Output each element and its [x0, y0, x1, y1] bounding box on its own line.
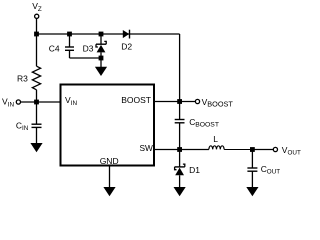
svg-text:IN: IN	[22, 125, 29, 132]
ground (GND pin)	[103, 187, 115, 196]
junction SW/CBOOST/D1	[177, 147, 182, 152]
svg-text:D3: D3	[83, 44, 94, 54]
svg-text:OUT: OUT	[267, 168, 280, 175]
wire VIN rail	[20, 101, 60, 103]
svg-text:Z: Z	[38, 6, 42, 13]
label CBOOST	[189, 117, 219, 129]
capacitor CIN	[32, 102, 42, 144]
wire SW pin to inductor	[155, 149, 209, 151]
wire R3 bottom lead	[36, 90, 38, 102]
node VIN label	[2, 97, 15, 109]
junction output	[250, 147, 255, 152]
junction C4 top	[67, 32, 72, 37]
diode D2	[123, 30, 130, 39]
diode D3 (schottky, cathode up)	[96, 34, 106, 68]
wire top rail	[37, 33, 180, 35]
wire BOOST pin stub	[155, 101, 180, 103]
wire C4 bottom to D3 anode	[70, 57, 102, 59]
ground (CIN)	[30, 143, 42, 152]
ground (COUT)	[246, 187, 258, 196]
svg-text:OUT: OUT	[288, 150, 301, 157]
capacitor COUT	[247, 150, 257, 188]
inductor L	[209, 146, 224, 150]
op-amp U1 regulator box	[61, 85, 155, 166]
node VOUT terminal	[273, 147, 277, 151]
ground (D1)	[174, 187, 186, 196]
ground (D3)	[95, 67, 107, 76]
svg-text:C4: C4	[49, 43, 60, 53]
diode D1 (schottky, cathode up)	[175, 150, 185, 188]
node VZ terminal	[35, 14, 39, 18]
svg-text:GND: GND	[100, 156, 119, 166]
svg-text:BOOST: BOOST	[207, 100, 233, 109]
junction D3 anode / C4	[99, 56, 104, 61]
node VZ label	[32, 1, 42, 13]
junction BOOST	[177, 99, 182, 104]
node VIN terminal	[16, 100, 20, 104]
node VBOOST terminal	[195, 99, 199, 103]
svg-text:IN: IN	[8, 101, 15, 108]
wire to VOUT terminal	[252, 149, 273, 151]
resistor R3	[32, 66, 40, 90]
wire inductor to output node	[224, 149, 252, 151]
svg-text:SW: SW	[140, 143, 154, 153]
junction VZ/rail	[34, 32, 39, 37]
wire VZ stem	[36, 18, 38, 34]
wire rail drop to BOOST node	[179, 34, 181, 102]
junction D3 top	[99, 32, 104, 37]
capacitor CBOOST	[175, 102, 185, 150]
svg-text:BOOST: BOOST	[121, 95, 151, 105]
wire R3 top lead	[36, 34, 38, 66]
svg-text:R3: R3	[17, 74, 28, 84]
svg-text:D1: D1	[189, 165, 200, 175]
wire GND pin	[109, 166, 111, 188]
pin VIN label	[65, 95, 78, 107]
label CIN	[16, 120, 29, 132]
svg-text:IN: IN	[71, 100, 78, 107]
svg-text:D2: D2	[121, 41, 132, 51]
svg-text:L: L	[213, 134, 218, 144]
node VOUT label	[282, 145, 301, 157]
label COUT	[261, 164, 280, 176]
svg-text:BOOST: BOOST	[195, 121, 219, 128]
capacitor C4	[65, 34, 74, 58]
node VBOOST label	[202, 97, 234, 109]
junction VIN/R3/CIN	[34, 100, 39, 105]
wire to VBOOST terminal	[180, 101, 196, 103]
